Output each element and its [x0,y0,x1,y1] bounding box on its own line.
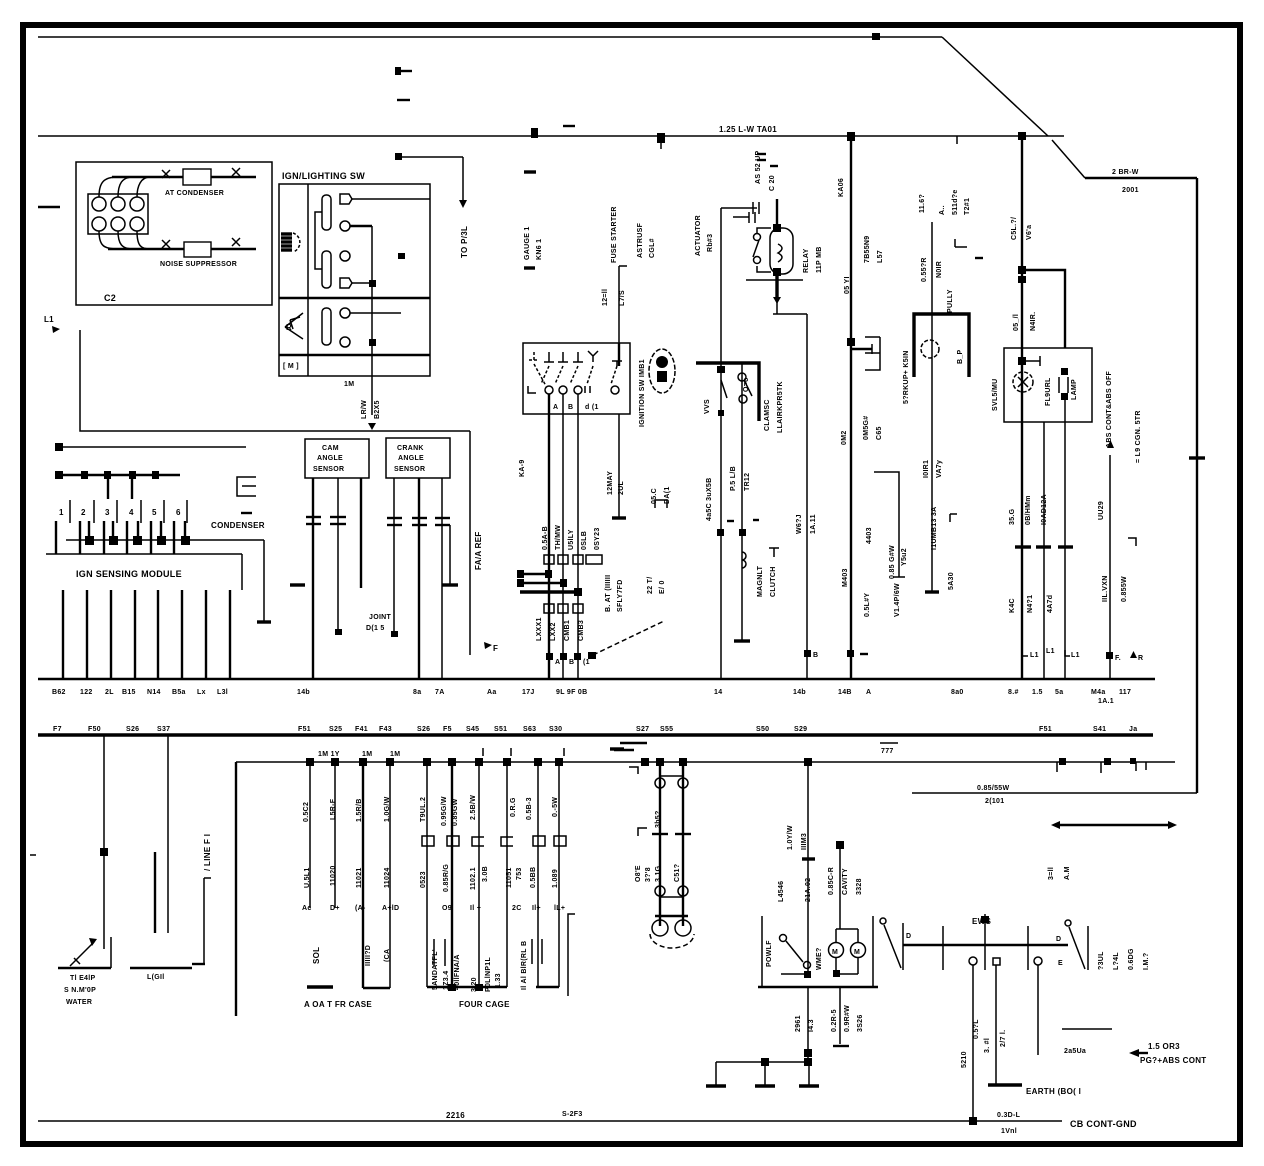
svg-text:14b: 14b [793,689,806,696]
wire v363 [362,762,364,988]
wire washer feed [839,845,841,929]
switch contact 3 [558,352,568,362]
wire tee stubs [520,573,549,575]
svg-text:35.G: 35.G [1009,508,1016,525]
svg-text:7B55N9: 7B55N9 [864,236,871,263]
svg-text:1A.1: 1A.1 [1098,698,1114,705]
svg-text:TO P/3L: TO P/3L [460,226,469,258]
svg-text:SVL5/MU: SVL5/MU [992,379,999,411]
svg-text:2: 2 [81,508,86,517]
wire collector line1 [66,539,264,541]
svg-text:S25: S25 [329,726,342,733]
svg-text:IGN SENSING MODULE: IGN SENSING MODULE [76,569,182,579]
svg-text:P.5 L/B: P.5 L/B [730,466,737,491]
svg-text:12MAY: 12MAY [607,471,614,495]
svg-text:N14: N14 [147,689,161,696]
svg-text:F41: F41 [355,726,368,733]
svg-text:WME?: WME? [816,947,823,970]
wire bus2 [38,135,1064,137]
svg-text:C65: C65 [876,426,883,440]
wire module outputs [62,590,64,679]
svg-text:4: 4 [129,508,134,517]
wire branch to right [1022,270,1065,348]
svg-text:L1: L1 [1030,652,1039,659]
svg-text:0.5?L: 0.5?L [973,1019,980,1039]
svg-text:POWLF: POWLF [766,940,773,967]
svg-text:FOUR CAGE: FOUR CAGE [459,1000,510,1009]
svg-text:5a: 5a [1055,689,1063,696]
svg-text:GAUGE 1: GAUGE 1 [524,226,531,260]
svg-text:Lx: Lx [197,689,206,696]
svg-text:S N.M'0P: S N.M'0P [64,987,96,994]
cam angle sensor box [305,439,369,478]
node branch [1018,266,1026,274]
svg-text:1.0G/W: 1.0G/W [384,796,391,822]
svg-text:I.M.?: I.M.? [1143,953,1150,970]
wire crank3 [441,478,443,679]
svg-text:C 20: C 20 [769,175,776,191]
svg-text:5?RKUP+ K5IN: 5?RKUP+ K5IN [903,350,910,404]
wire sw internal vertical [371,226,373,415]
svg-text:L57: L57 [877,250,884,263]
svg-text:3.0B: 3.0B [482,866,489,882]
icon headlight [293,233,300,252]
svg-text:V1.4P/6W: V1.4P/6W [894,583,901,617]
svg-text:IIIII?D: IIIII?D [365,945,372,966]
svg-text:?3UL: ?3UL [1098,951,1105,970]
svg-text:T2#1: T2#1 [964,198,971,215]
label GAUGE KNOCK rotated [524,170,536,173]
svg-text:N4IR.: N4IR. [1030,312,1037,331]
svg-text:1.5R/B: 1.5R/B [356,798,363,822]
svg-text:PG?+ABS CONT: PG?+ABS CONT [1140,1056,1207,1065]
wire abs [1109,455,1111,679]
svg-text:(1: (1 [583,659,590,666]
EWS rail [903,944,1068,946]
node junction bus2 b [657,133,665,143]
connector tees actuator [753,202,759,214]
svg-text:12=ll: 12=ll [602,289,609,306]
svg-text:B2X5: B2X5 [374,400,381,419]
svg-text:S37: S37 [157,726,170,733]
resistor noise suppressor lower [184,242,211,257]
svg-text:L3l: L3l [217,689,228,696]
switch D blade [880,918,886,924]
svg-text:21A.02: 21A.02 [805,878,812,902]
svg-text:KA06: KA06 [838,178,845,197]
svg-text:CB CONT-GND: CB CONT-GND [1070,1119,1137,1129]
label condenser dash [241,512,252,514]
svg-text:L1: L1 [1046,648,1055,655]
wire v335 [334,762,336,908]
wire right feeder horizontal [1085,177,1197,179]
wire S210 [972,965,974,1121]
svg-text:A: A [553,404,558,411]
svg-text:I1UMB13 3A: I1UMB13 3A [931,507,938,550]
svg-text:F: F [493,644,498,653]
wire key d drop [618,414,620,517]
svg-text:1.0Y/W: 1.0Y/W [787,825,794,850]
switch contact 1 [529,352,539,360]
wire horn [931,222,933,592]
svg-text:1M 1Y: 1M 1Y [318,751,340,758]
svg-text:S55: S55 [660,726,673,733]
label 777 [880,742,898,744]
switch contact 6 [612,361,622,366]
svg-text:EARTH (BO( l: EARTH (BO( l [1026,1087,1081,1096]
svg-text:S63: S63 [523,726,536,733]
svg-text:2UL: 2UL [618,480,625,495]
wire relay crossbar [746,279,803,281]
svg-text:SENSOR: SENSOR [394,466,425,473]
svg-text:11051: 11051 [506,867,513,888]
svg-text:0.-5W: 0.-5W [552,797,559,817]
svg-text:3.1G: 3.1G [655,865,662,882]
svg-text:CRANK: CRANK [397,445,424,452]
svg-text:S-2F3: S-2F3 [562,1111,583,1118]
wire thermo base [58,967,111,969]
wire bottom ground line [38,1120,1062,1122]
node squares on dist line [306,758,314,766]
wire coil b [154,852,156,933]
svg-text:9L 9F 0B: 9L 9F 0B [556,689,587,696]
svg-text:0.9R#W: 0.9R#W [844,1005,851,1032]
svg-text:1M: 1M [390,751,400,758]
svg-text:0.3D-L: 0.3D-L [997,1112,1021,1119]
svg-text:6: 6 [176,508,181,517]
wire o2 right [682,762,684,926]
svg-text:Y5u2: Y5u2 [901,548,908,566]
svg-text:D(1 5: D(1 5 [366,625,385,632]
svg-text:(A-: (A- [355,905,366,912]
rail ticks [942,926,944,970]
svg-text:Ac: Ac [302,905,312,912]
svg-text:753: 753 [516,867,523,880]
wire stub Y [874,472,899,577]
svg-text:B. AT (IIIIII: B. AT (IIIIII [605,575,612,612]
svg-text:22 T/: 22 T/ [647,577,654,594]
svg-text:8a0: 8a0 [951,689,964,696]
svg-text:2(101: 2(101 [985,798,1004,805]
wire v507 [506,762,508,987]
svg-text:M403: M403 [842,568,849,587]
svg-text:F7: F7 [53,726,62,733]
switch wiper 1 [322,195,331,230]
svg-text:CLUTCH: CLUTCH [770,566,777,597]
svg-text:5ANDATFL': 5ANDATFL' [432,949,439,990]
connector circles top [655,778,665,788]
label left stub [38,206,60,208]
svg-text:0SLB: 0SLB [581,531,588,550]
node tick bus2 [956,136,958,144]
svg-text:I4.3: I4.3 [808,1019,815,1032]
svg-text:11020: 11020 [330,865,337,886]
icon pulley circle [921,340,939,358]
wire arrow end [368,423,376,430]
svg-text:0523: 0523 [420,871,427,888]
svg-text:S27: S27 [636,726,649,733]
wire pin stubs [107,475,109,499]
wire cam1 [312,478,314,679]
svg-text:K4C: K4C [1009,598,1016,613]
connector X marks upper [162,170,170,178]
svg-text:AS 52 UP: AS 52 UP [755,150,762,184]
svg-text:2/7 l.: 2/7 l. [1000,1030,1007,1047]
svg-text:4403: 4403 [866,527,873,544]
svg-text:I0AD12A: I0AD12A [1041,494,1048,525]
wire relay to main [776,302,778,314]
svg-text:0.85R/G: 0.85R/G [443,864,450,892]
svg-text:ACTUATOR: ACTUATOR [695,215,702,256]
svg-text:B5a: B5a [172,689,186,696]
svg-text:(CA: (CA [384,949,391,962]
switch thermo blade [70,942,94,966]
svg-text:LR/W: LR/W [361,400,368,419]
wire v568 hook [568,914,575,996]
svg-text:FA/A REF: FA/A REF [474,531,483,570]
svg-text:A..: A.. [939,205,946,215]
svg-text:PULLY: PULLY [947,289,954,313]
svg-text:IIL.VXN: IIL.VXN [1102,575,1109,602]
svg-text:0.5B-3: 0.5B-3 [526,797,533,820]
svg-text:SOL: SOL [312,947,321,964]
svg-text:B: B [568,404,573,411]
svg-text:5A30: 5A30 [948,572,955,590]
svg-text:0.5C2: 0.5C2 [303,802,310,822]
svg-text:1.5: 1.5 [1032,689,1043,696]
pin contact 6 [340,337,350,347]
wire v427 [426,762,428,987]
svg-text:M: M [832,949,838,956]
svg-text:0M5G#: 0M5G# [863,416,870,440]
bracket marks [433,939,435,966]
svg-text:D+: D+ [330,905,340,912]
svg-text:I0IR1: I0IR1 [923,460,930,478]
pulley housing [914,314,969,377]
svg-text:3S26: 3S26 [857,1014,864,1032]
svg-text:11024: 11024 [384,867,391,888]
wire condenser line2 [58,474,180,476]
svg-text:R: R [1138,655,1143,662]
svg-text:[ M ]: [ M ] [283,363,299,370]
wire cam3 [360,478,362,588]
wire compressor bracket [696,363,759,421]
wire relay feed [776,199,778,228]
label dash [290,583,305,586]
wiper bracket [315,212,322,269]
wire bus row2 [38,733,1153,736]
svg-text:05 YI: 05 YI [844,276,851,294]
svg-text:3.20: 3.20 [471,977,478,992]
capacitor dashes [652,833,668,835]
node bottom refs [1022,650,1028,656]
symbol bracket [655,500,667,508]
wire base segments [427,986,507,988]
capacitor marks crank [387,517,402,519]
svg-text:TH/MW: TH/MW [555,525,562,550]
wire v452 [451,762,453,990]
switch clutch A contact [721,380,727,398]
wire lamp down c [1064,400,1066,679]
svg-text:117: 117 [1119,689,1131,696]
svg-text:UU29: UU29 [1098,501,1105,520]
wire earth body [995,965,997,1084]
svg-text:W6?J: W6?J [796,514,803,534]
svg-text:C2: C2 [104,293,116,303]
svg-text:CGL#: CGL# [649,238,656,258]
svg-text:1M: 1M [344,381,354,388]
svg-text:0.95G/W: 0.95G/W [441,796,448,826]
svg-text:L1: L1 [44,315,54,324]
svg-text:Il +: Il + [470,905,481,912]
svg-text:2216: 2216 [446,1111,465,1120]
svg-text:FL9URL: FL9URL [1045,377,1052,406]
svg-text:V6'a: V6'a [1026,225,1033,240]
svg-text:L1: L1 [1071,652,1080,659]
svg-text:E/ 0: E/ 0 [659,580,666,594]
svg-text:CMB1: CMB1 [564,620,571,641]
svg-text:RELAY: RELAY [803,248,810,273]
node knock junction [847,338,855,346]
arrow line mid right [1055,824,1173,826]
svg-text:Ja: Ja [1129,726,1137,733]
svg-text:O=o: O=o [743,377,750,392]
svg-text:CONDENSER: CONDENSER [211,521,265,530]
svg-text:2001: 2001 [1122,187,1139,194]
svg-text:8.#: 8.# [1008,689,1019,696]
svg-text:KN6 1: KN6 1 [536,239,543,260]
connector circles bottom [655,886,665,896]
wire crank stub right [449,525,451,584]
node junction clutch [717,366,725,373]
relay coil [770,228,793,274]
svg-text:M4a: M4a [1091,689,1106,696]
node junction bus2 [531,128,538,138]
svg-text:L4546: L4546 [778,881,785,902]
wire v479 [478,762,480,987]
icon key [649,349,675,393]
connector dashes [1015,545,1031,548]
node junctions clutch low [717,529,724,536]
svg-text:4a5C 3uX5B: 4a5C 3uX5B [706,478,713,521]
svg-text:2961: 2961 [795,1015,802,1032]
wire lamp down b [1043,422,1045,679]
ground rail [716,1061,809,1063]
svg-text:3b5?: 3b5? [655,810,662,828]
svg-text:3. #l: 3. #l [984,1038,991,1053]
ground symbols [715,1062,717,1085]
svg-text:A+lD: A+lD [382,905,399,912]
svg-text:C51?: C51? [674,864,681,882]
svg-text:SENSOR: SENSOR [313,466,344,473]
svg-text:0.855W: 0.855W [1121,576,1128,602]
svg-text:S45: S45 [466,726,479,733]
connector X marks lower [162,240,170,248]
capacitor marks cam [306,516,321,518]
svg-text:1A.11: 1A.11 [810,514,817,534]
label dashes left [620,742,647,744]
svg-text:/ LINE F l: / LINE F l [203,834,212,871]
wire v538 [537,762,539,987]
node junction bus2 d [1018,132,1026,140]
wire B terminator [734,639,750,642]
svg-text:14B: 14B [838,689,852,696]
wire right feeder vertical [1196,178,1198,793]
node knock bottom [847,650,854,657]
node junctions [641,758,649,766]
svg-text:D: D [1056,936,1061,943]
svg-text:JOINT: JOINT [369,614,392,621]
svg-text:17J: 17J [522,689,535,696]
wire diagonal to corner [1052,140,1085,178]
svg-text:4A7d: 4A7d [1047,595,1054,613]
svg-text:1Z3.4: 1Z3.4 [443,971,450,990]
wire thin distribution line [236,761,1175,763]
wire crank1 [393,478,395,635]
wire horn end [925,590,939,593]
svg-text:F.: F. [1115,655,1121,662]
svg-text:14: 14 [714,689,722,696]
svg-text:0.5BB: 0.5BB [530,867,537,888]
svg-text:A.M: A.M [1064,866,1071,880]
svg-text:11.6?: 11.6? [919,194,926,213]
svg-text:0SY23: 0SY23 [594,527,601,550]
pin contact 4 [340,278,352,288]
svg-text:LXXX1: LXXX1 [536,617,543,641]
icon turn signal [285,313,303,339]
pin contact 2 [340,221,350,231]
svg-text:SFLY7FD: SFLY7FD [617,579,624,612]
wire sol dash [307,985,333,988]
node junction bus2 c [847,132,855,141]
wire pin drops [55,521,57,554]
svg-text:5: 5 [152,508,157,517]
wire key c [577,394,579,679]
wire main drop E [806,314,808,679]
svg-text:14b: 14b [297,689,310,696]
svg-text:1: 1 [59,508,64,517]
svg-text:ANGLE: ANGLE [398,455,424,462]
svg-text:LAMP: LAMP [1071,379,1078,400]
svg-text:T9UL.2: T9UL.2 [420,797,427,822]
svg-text:S29: S29 [794,726,807,733]
wire v310 [309,762,311,908]
wires below box [807,987,809,1062]
wire clutch A [720,208,722,679]
node ticks right end of dist line [1056,762,1058,772]
svg-text:0.6DG: 0.6DG [1128,948,1135,970]
node tick right feeder [1189,456,1205,459]
svg-text:0.85C-R: 0.85C-R [828,867,835,895]
svg-text:S41: S41 [1093,726,1106,733]
svg-text:5210: 5210 [961,1051,968,1068]
lamp right pins [1061,368,1068,375]
svg-text:0.55?R: 0.55?R [921,257,928,282]
svg-text:WATER: WATER [66,999,92,1006]
pin contact 3 [340,251,350,261]
label dash 2a5 [1062,1028,1112,1030]
wire coil a [167,735,169,933]
node lamp junction [1018,357,1026,365]
switch wiper 3 [322,308,331,345]
capacitor condenser symbol [237,477,256,496]
switch contact 5 [588,351,598,362]
svg-text:1.5 OR3: 1.5 OR3 [1148,1042,1180,1051]
svg-text:F51: F51 [1039,726,1052,733]
wire v559 [558,762,560,987]
svg-text:C5L.?/: C5L.?/ [1011,217,1018,240]
svg-text:B: B [569,659,574,666]
